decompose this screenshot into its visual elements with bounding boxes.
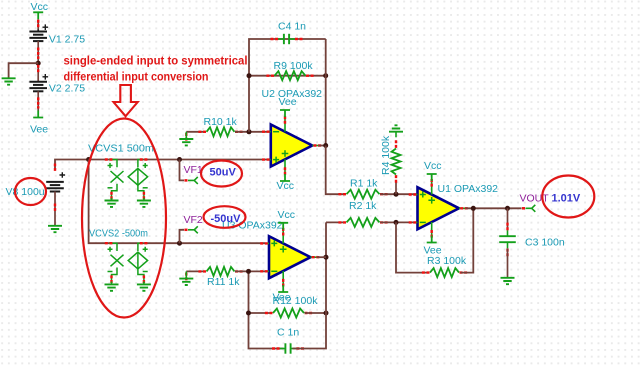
wire: [186, 131, 206, 133]
svg-text:single-ended input to symmetri: single-ended input to symmetrical: [64, 54, 248, 68]
annotation ellipse around 50uV: [201, 161, 242, 187]
wire: [37, 41, 39, 82]
svg-text:R3 100k: R3 100k: [427, 255, 467, 267]
wire to U3 +in: [180, 242, 266, 244]
wire down to VCVS2 row: [89, 160, 180, 244]
svg-text:R1 1k: R1 1k: [350, 178, 378, 190]
svg-text:VCVS1 500m: VCVS1 500m: [88, 143, 154, 155]
wire R11 to U3 -in: [235, 270, 266, 272]
wire to R3: [396, 222, 429, 272]
svg-text:VCVS2 -500m: VCVS2 -500m: [89, 228, 148, 240]
svg-text:U1 OPAx392: U1 OPAx392: [438, 183, 499, 195]
power tap Vcc of U2: [280, 174, 290, 181]
power tap Vcc of U3: [278, 223, 288, 230]
ground: [185, 132, 187, 139]
node U1 -in: [394, 220, 399, 225]
wire to R2: [326, 221, 346, 223]
node VF2: [177, 241, 182, 246]
wire R9 row: [249, 75, 326, 77]
controlled source VCVS2 -500m: [109, 243, 117, 251]
ground: [111, 198, 113, 201]
svg-text:R2 1k: R2 1k: [349, 200, 377, 212]
power tap Vee of U3: [278, 285, 288, 292]
node U2 output: [323, 143, 328, 148]
annotation ellipse around VCVS pair: [82, 119, 166, 318]
ground: [48, 226, 62, 232]
resistor R10 1k: [207, 127, 235, 136]
wire: [54, 192, 56, 226]
controlled source VCVS1 500m: [109, 160, 117, 168]
wire U2 out: [319, 145, 326, 147]
power tap Vee of U1: [427, 236, 437, 243]
resistor R11 1k: [207, 267, 235, 276]
wire: [507, 248, 509, 277]
resistor R4 100k: [392, 149, 401, 175]
node input split: [86, 157, 91, 162]
ground: [501, 278, 515, 284]
wire to VF2 probe: [180, 230, 185, 243]
annotation ellipse around 1.01V: [542, 176, 594, 218]
wire to U2 +in: [180, 159, 268, 161]
capacitor C 1n: [284, 343, 286, 353]
node output C3: [505, 206, 510, 211]
wire: [507, 208, 509, 230]
node between V1 and V2: [36, 61, 41, 66]
op-amp U2 OPAx392: [271, 125, 313, 167]
annotation arrow: [114, 85, 138, 116]
wire U2 out to R1: [326, 146, 346, 195]
wire R2 to U1 -in: [380, 221, 417, 223]
capacitor C3 100n: [499, 235, 516, 237]
power tap Vcc: [33, 12, 43, 19]
op-amp U1 OPAx392: [418, 187, 460, 229]
capacitor C4 1n: [283, 34, 285, 44]
node R12 right: [324, 311, 329, 316]
power tap Vee: [33, 111, 43, 118]
svg-text:R11 1k: R11 1k: [207, 276, 240, 288]
op-amp U3 OPAx392: [269, 236, 311, 278]
node U1 +in: [394, 192, 399, 197]
svg-text:VOUT: VOUT: [520, 193, 550, 205]
ground: [143, 198, 145, 201]
node R9 right: [323, 73, 328, 78]
voltage probe VF1: [188, 177, 198, 184]
voltage probe VOUT: [526, 205, 536, 212]
node U2 -in: [247, 129, 252, 134]
svg-text:C 1n: C 1n: [277, 327, 299, 339]
svg-text:50uV: 50uV: [210, 167, 237, 179]
svg-text:Vcc: Vcc: [424, 160, 442, 172]
svg-text:VF2: VF2: [184, 214, 203, 226]
svg-text:R12 100k: R12 100k: [273, 295, 319, 307]
annotation ellipse around -50uV: [204, 206, 246, 228]
svg-text:Vcc: Vcc: [277, 180, 295, 192]
svg-text:-50uV: -50uV: [211, 213, 242, 225]
svg-text:V1 2.75: V1 2.75: [49, 34, 85, 46]
wire C4 loop left/top: [249, 39, 326, 132]
wire R3 to output: [461, 208, 474, 272]
wire right feedback vertical: [325, 39, 327, 146]
wire row to VCVS1/VF1: [89, 159, 180, 161]
wire right bottom vertical: [293, 222, 327, 348]
resistor R1 1k: [347, 190, 380, 199]
wire: [37, 19, 39, 29]
resistor R3 100k: [430, 268, 459, 277]
wire to ground: [9, 63, 39, 77]
node R12 left: [246, 311, 251, 316]
voltage probe VF2: [188, 226, 198, 233]
wire U3 out: [317, 256, 326, 258]
node VF1: [177, 157, 182, 162]
wire R12 left: [249, 312, 273, 314]
svg-text:Vcc: Vcc: [278, 209, 296, 221]
svg-text:R10 1k: R10 1k: [204, 116, 238, 128]
resistor R12 100k: [273, 309, 304, 318]
ground (inverted): [395, 132, 397, 138]
wire: [395, 181, 397, 194]
ground: [2, 78, 16, 84]
svg-text:differential input conversion: differential input conversion: [64, 70, 209, 84]
voltage source V8 100u: [46, 181, 64, 183]
svg-text:Vcc: Vcc: [31, 1, 49, 13]
wire to VF1 probe: [180, 160, 185, 181]
svg-text:R9 100k: R9 100k: [274, 60, 314, 72]
wire: [186, 270, 206, 272]
wire: [37, 91, 39, 110]
node output feedback: [471, 206, 476, 211]
wire R1 to U1 +in: [380, 193, 417, 195]
ground: [111, 282, 113, 285]
wire R10 to U2 -in: [235, 131, 268, 133]
annotation circle around V8 value: [15, 178, 46, 205]
wire: [55, 160, 89, 171]
svg-text:V8 100u: V8 100u: [6, 186, 45, 198]
resistor R9 100k: [275, 71, 306, 80]
wire C loop left: [249, 271, 284, 348]
svg-text:V2 2.75: V2 2.75: [49, 83, 85, 95]
node U3 output: [324, 255, 329, 260]
svg-text:Vee: Vee: [279, 96, 297, 108]
svg-text:R4 100k: R4 100k: [380, 135, 392, 175]
power tap Vcc of U1: [427, 174, 437, 181]
wire R12 right: [305, 312, 327, 314]
ground: [185, 271, 187, 278]
node R9 left: [247, 73, 252, 78]
resistor R2 1k: [347, 218, 380, 227]
svg-text:C4 1n: C4 1n: [278, 21, 306, 33]
svg-text:1.01V: 1.01V: [552, 193, 581, 205]
voltage source V1 2.75: [29, 31, 47, 33]
svg-text:C3 100n: C3 100n: [525, 237, 565, 249]
svg-text:Vee: Vee: [30, 123, 48, 135]
node U3 -in: [246, 269, 251, 274]
ground: [143, 282, 145, 285]
power tap Vee of U2: [280, 110, 290, 117]
voltage source V2 2.75: [29, 81, 47, 83]
wire U1 output: [466, 207, 522, 209]
